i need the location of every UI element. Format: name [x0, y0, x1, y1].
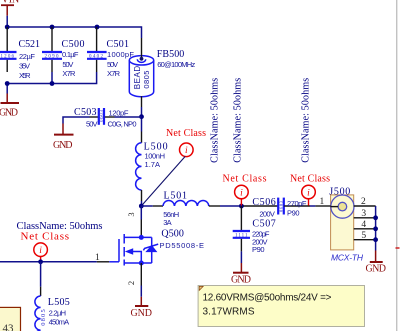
- junction C500 bottom: [50, 81, 55, 86]
- svg-text:GND: GND: [53, 140, 73, 151]
- capacitor C501: [87, 27, 134, 78]
- svg-text:Net Class: Net Class: [223, 174, 267, 185]
- svg-text:Net Class: Net Class: [21, 231, 70, 243]
- power VIN: [1, 0, 19, 16]
- junction C503 node: [139, 114, 144, 119]
- note box: [198, 286, 364, 327]
- svg-text:C500: C500: [62, 39, 85, 50]
- wire C503 left: [63, 117, 90, 124]
- svg-text:i: i: [185, 146, 188, 156]
- net class directive J500 node: [290, 174, 330, 206]
- svg-text:P90: P90: [252, 245, 265, 254]
- wire VIN vertical: [6, 16, 8, 27]
- svg-text:GND: GND: [231, 275, 251, 286]
- ground GND input rail: [0, 94, 19, 119]
- svg-text:2: 2: [126, 281, 136, 285]
- svg-text:Net Class: Net Class: [290, 174, 330, 185]
- node junction L500/L501/Q500: [139, 204, 144, 209]
- ground GND Q500: [131, 297, 153, 319]
- ground GND J500: [366, 251, 387, 275]
- junction C501 top: [95, 25, 100, 30]
- sheet border right: [396, 0, 398, 331]
- svg-text:0603: 0603: [100, 110, 105, 123]
- junction pin3: [373, 215, 378, 220]
- junction gate/L505: [38, 259, 43, 264]
- svg-text:GND: GND: [131, 308, 153, 319]
- junction pin4: [373, 226, 378, 231]
- svg-text:2: 2: [361, 197, 366, 207]
- wire node to L501: [141, 205, 153, 207]
- svg-text:L505: L505: [48, 297, 70, 308]
- wire C506 to J500: [310, 205, 315, 207]
- net class directive L500 node: [142, 128, 207, 206]
- wire Q500 source: [140, 286, 142, 297]
- inductor L505: [35, 287, 70, 331]
- capacitor C521: [0, 27, 40, 80]
- svg-text:PD55008-E: PD55008-E: [160, 241, 205, 250]
- connector J500: [315, 186, 375, 262]
- svg-text:270pF: 270pF: [287, 199, 307, 208]
- svg-text:1206: 1206: [1, 54, 15, 59]
- svg-text:1.7A: 1.7A: [145, 160, 161, 169]
- svg-text:MCX-TH: MCX-TH: [331, 252, 364, 262]
- wire top rail: [7, 26, 142, 28]
- svg-text:43: 43: [3, 323, 15, 331]
- svg-text:ClassName: 50ohms: ClassName: 50ohms: [210, 78, 221, 163]
- wire L505 drop: [40, 262, 42, 287]
- svg-text:5: 5: [361, 231, 366, 241]
- wire bead to L500: [141, 107, 143, 132]
- wire L500 to node: [141, 201, 143, 206]
- svg-text:C501: C501: [107, 39, 130, 50]
- wire C503 right: [115, 116, 142, 118]
- capacitor C506: [244, 197, 311, 219]
- svg-text:GND: GND: [366, 263, 387, 274]
- sheet connection tick right edge: [396, 247, 400, 249]
- svg-text:50V: 50V: [62, 60, 73, 69]
- svg-text:1: 1: [320, 197, 325, 207]
- svg-text:4: 4: [361, 220, 366, 230]
- wire bottom rail: [7, 72, 96, 84]
- svg-text:1111: 1111: [235, 233, 248, 238]
- svg-text:GND: GND: [0, 108, 18, 119]
- svg-text:i: i: [39, 246, 42, 256]
- capacitor C507: [233, 206, 276, 254]
- svg-text:60@100MHz: 60@100MHz: [157, 60, 195, 69]
- svg-text:3: 3: [361, 209, 366, 219]
- svg-text:Net Class: Net Class: [166, 128, 206, 139]
- svg-text:ClassName: 50ohms: ClassName: 50ohms: [300, 78, 311, 163]
- svg-text:0805: 0805: [142, 71, 151, 89]
- svg-text:0.1µF: 0.1µF: [62, 50, 79, 59]
- wire L501 to C506 node: [220, 205, 244, 207]
- junction pin5: [373, 237, 378, 242]
- inductor L501: [153, 191, 220, 227]
- svg-text:BEAD: BEAD: [133, 66, 142, 90]
- svg-text:3.17WRMS: 3.17WRMS: [203, 307, 255, 318]
- svg-text:ClassName: 50ohms: ClassName: 50ohms: [233, 78, 244, 163]
- svg-text:X7R: X7R: [107, 69, 121, 78]
- svg-text:2090: 2090: [45, 54, 60, 59]
- svg-text:C507: C507: [252, 218, 275, 229]
- svg-text:C521: C521: [19, 39, 41, 50]
- junction C506/C507 node: [239, 204, 244, 209]
- svg-text:P90: P90: [287, 208, 300, 217]
- junction C500 top: [50, 25, 55, 30]
- svg-text:50V: 50V: [107, 60, 118, 69]
- svg-text:FB500: FB500: [157, 49, 185, 60]
- svg-text:X5R: X5R: [19, 71, 31, 80]
- wire C507 to gnd: [240, 251, 242, 263]
- svg-text:Q500: Q500: [161, 229, 184, 240]
- svg-text:450mA: 450mA: [49, 318, 70, 327]
- inductor L500: [136, 132, 168, 202]
- wire gate net: [0, 261, 97, 263]
- net class directive gate: [21, 231, 70, 262]
- pin 1 gate: [97, 261, 109, 263]
- ground GND C503: [53, 124, 74, 151]
- svg-text:i: i: [307, 188, 310, 198]
- svg-text:0402: 0402: [89, 54, 104, 59]
- svg-text:35V: 35V: [19, 62, 30, 71]
- net class directive C506 node: [223, 174, 267, 206]
- capacitor C503: [74, 107, 137, 129]
- svg-text:22µF: 22µF: [19, 52, 35, 61]
- part edge cut corner box: [0, 307, 21, 331]
- svg-text:2.2µH: 2.2µH: [49, 309, 67, 318]
- svg-text:50V: 50V: [86, 120, 98, 129]
- svg-text:C0G, NP0: C0G, NP0: [108, 120, 137, 129]
- svg-text:1: 1: [95, 253, 100, 263]
- svg-text:i: i: [240, 188, 243, 198]
- transistor Q500: [109, 212, 204, 285]
- svg-text:12.60VRMS@50ohms/24V =>: 12.60VRMS@50ohms/24V =>: [203, 293, 332, 304]
- junction VIN-rail: [5, 25, 10, 30]
- svg-text:3A: 3A: [163, 218, 172, 227]
- junction C521 bottom: [5, 81, 10, 86]
- svg-text:0805: 0805: [40, 309, 47, 326]
- svg-text:X7R: X7R: [62, 69, 76, 78]
- svg-text:3: 3: [126, 212, 136, 216]
- ferrite bead FB500: [129, 38, 195, 107]
- wire Q500 drain: [140, 206, 142, 220]
- svg-text:L501: L501: [164, 191, 188, 202]
- wire J500 shield: [375, 206, 377, 251]
- svg-text:0603: 0603: [279, 200, 284, 212]
- wire bead drop: [141, 26, 143, 38]
- svg-text:C506: C506: [252, 197, 275, 208]
- capacitor C500: [42, 27, 85, 78]
- svg-text:200V: 200V: [259, 210, 275, 219]
- ground GND C507: [231, 263, 251, 286]
